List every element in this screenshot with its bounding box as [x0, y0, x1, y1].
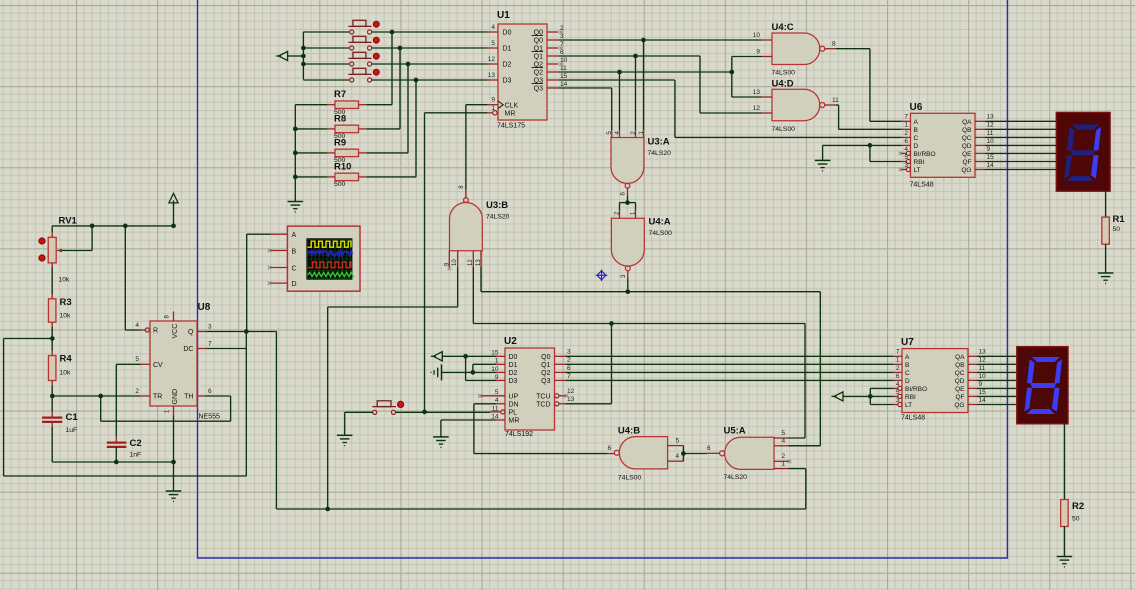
wire Q2bar drop to U3:A — [619, 72, 621, 130]
svg-text:D2: D2 — [503, 62, 512, 69]
svg-text:9: 9 — [491, 97, 495, 104]
wire U6 QD to display — [985, 144, 1056, 146]
wire U6 QA to display — [985, 120, 1056, 122]
U6 pin QA (13) — [975, 120, 985, 122]
ground (U2 data) — [441, 364, 443, 380]
svg-text:QG: QG — [961, 167, 971, 174]
U7 pin QG (14) — [968, 404, 977, 406]
svg-text:R7: R7 — [334, 89, 346, 100]
svg-text:UP: UP — [509, 394, 519, 401]
svg-text:A: A — [292, 232, 297, 239]
wire switch bus vertical — [302, 32, 304, 80]
svg-text:6: 6 — [896, 373, 900, 380]
svg-text:3: 3 — [560, 33, 564, 40]
node junction TR-C2branch — [98, 394, 103, 399]
U6 pin QG (14) — [975, 169, 985, 171]
svg-text:B: B — [905, 362, 909, 369]
svg-text:7: 7 — [904, 114, 908, 121]
wire RV1 to R3 — [51, 263, 53, 267]
wire Q1bar drop to U3:A — [635, 56, 637, 130]
node junction PL-MR — [422, 410, 427, 415]
node junction row1 — [390, 30, 395, 35]
svg-text:R10: R10 — [334, 161, 351, 172]
U8 pin DC (7) — [197, 348, 206, 350]
U4:D input pin 12 — [762, 112, 772, 114]
wire R2 to ground — [1063, 527, 1065, 557]
svg-text:6: 6 — [567, 365, 571, 372]
oscilloscope graph instrument — [287, 226, 360, 291]
chip U6 74LS48 — [911, 113, 976, 177]
U5:A input pin 5 — [774, 437, 789, 439]
wire U3:A out to U4:A inputs — [627, 196, 629, 203]
U4:C input pin 9 — [762, 56, 772, 58]
U1 pin Q2 (10) — [547, 63, 558, 65]
node junction Q-osc — [244, 329, 249, 334]
U1 pin Q2bar (11) — [547, 71, 558, 73]
U7 pin QE (9) — [968, 387, 977, 389]
wire switch SW2 to U1 D1 — [372, 47, 488, 49]
wire DN net from U4:B — [474, 403, 496, 405]
svg-text:8: 8 — [832, 41, 836, 48]
node junction clock bus — [325, 507, 330, 512]
node junction bus-row2 — [301, 46, 306, 51]
svg-text:3: 3 — [904, 162, 908, 169]
U5:A pin2 unconnected mark — [788, 460, 792, 464]
ground (U2 MR) — [433, 436, 449, 438]
svg-text:GND: GND — [172, 389, 179, 405]
wire Q3 net (pin15) to U6 C — [558, 79, 675, 81]
potentiometer RV1 — [51, 232, 53, 237]
svg-text:1: 1 — [491, 105, 495, 112]
svg-text:11: 11 — [979, 365, 986, 372]
svg-text:TR: TR — [153, 394, 162, 401]
RV1 adjust buttons — [39, 238, 45, 244]
U4:B input pins 5,4 — [668, 445, 684, 447]
U7 pin B (1) — [894, 363, 903, 365]
wire rail to RV1 — [51, 226, 53, 232]
switch SW5 state indicator — [398, 401, 404, 407]
switch SW3 state indicator — [373, 53, 379, 59]
svg-text:RBI: RBI — [914, 159, 925, 166]
U2 pin Q3 (7) — [555, 379, 566, 381]
wire Q to clock bus — [275, 332, 277, 510]
wire U2 Q1 to U7 — [566, 363, 894, 365]
svg-text:10k: 10k — [60, 370, 72, 377]
U7 pin QC (11) — [968, 371, 977, 373]
U1 pin Q0bar (3) — [547, 39, 558, 41]
node junction row3 — [406, 62, 411, 67]
svg-text:Q3: Q3 — [541, 378, 550, 385]
svg-text:5: 5 — [904, 154, 908, 161]
wire TR to TH dogleg — [100, 396, 102, 421]
wire U5:A pin4 riser — [789, 445, 821, 447]
svg-text:D: D — [905, 378, 910, 385]
U1 pin D1 (5) — [488, 47, 498, 49]
svg-text:D0: D0 — [509, 354, 518, 361]
resistor R8 — [366, 128, 400, 130]
U6 pin QB (12) — [975, 128, 985, 130]
U6 pin A (7) — [902, 120, 911, 122]
7-segment display DS2 — [1017, 347, 1068, 424]
U3:B pin9 unconnected mark — [448, 267, 452, 271]
svg-text:4: 4 — [676, 453, 680, 460]
svg-text:R: R — [153, 328, 158, 335]
svg-text:A: A — [905, 354, 910, 361]
U3:B output bubble (pin 8) — [464, 198, 469, 203]
U1 pin Q3bar (14) — [547, 87, 558, 89]
U8 pin Q (3) — [197, 331, 206, 333]
svg-text:4: 4 — [782, 438, 786, 445]
svg-text:QG: QG — [954, 402, 964, 409]
resistor R10 — [366, 176, 416, 178]
svg-text:15: 15 — [560, 73, 568, 80]
wire SW5 to PL net — [396, 411, 490, 413]
svg-text:TH: TH — [184, 394, 193, 401]
svg-text:74LS175: 74LS175 — [497, 123, 525, 130]
svg-text:2: 2 — [135, 388, 139, 395]
node junction U7 RBI — [868, 394, 873, 399]
svg-text:U4:D: U4:D — [772, 78, 794, 89]
svg-text:DN: DN — [509, 402, 519, 409]
wire Q0bar net (pin3) — [558, 39, 762, 41]
wire R4 to TR row — [51, 381, 53, 386]
svg-text:10: 10 — [753, 32, 761, 39]
svg-text:3: 3 — [896, 397, 900, 404]
svg-text:QD: QD — [962, 143, 972, 150]
U8 pin TR (2) — [141, 395, 150, 397]
svg-text:7: 7 — [896, 349, 900, 356]
svg-text:Q0: Q0 — [534, 38, 543, 45]
wire Q0bar drop to U3:A — [643, 40, 645, 130]
resistor R4 — [51, 339, 53, 351]
svg-text:1: 1 — [904, 122, 908, 129]
svg-text:74LS00: 74LS00 — [618, 475, 642, 482]
gate U4:D 74LS00 — [772, 89, 820, 121]
U1 pin Q3 (15) — [547, 79, 558, 81]
U2 UP unconnected mark — [478, 394, 482, 398]
wire to switch SW2 — [303, 47, 349, 49]
svg-text:6: 6 — [560, 49, 564, 56]
svg-text:10: 10 — [979, 373, 987, 380]
svg-text:1: 1 — [782, 460, 786, 467]
U2 TCU unconnected mark — [565, 394, 569, 398]
svg-text:74LS48: 74LS48 — [910, 182, 934, 189]
svg-text:QA: QA — [962, 119, 972, 126]
U7 pin QF (15) — [968, 395, 977, 397]
wire Q2bar net (pin11) — [558, 71, 731, 73]
oscilloscope pin B — [271, 250, 288, 252]
gate U4:A 74LS00 — [611, 218, 644, 266]
svg-text:QC: QC — [962, 135, 972, 142]
svg-text:BI/RBO: BI/RBO — [914, 151, 936, 158]
svg-text:5: 5 — [676, 437, 680, 444]
wire U5:A pin1 to clock bus — [789, 468, 806, 470]
gate U4:C 74LS00 — [772, 33, 820, 65]
svg-text:LT: LT — [914, 167, 921, 174]
U7 pin A (7) — [894, 355, 903, 357]
switch SW1 — [348, 20, 371, 34]
svg-text:9: 9 — [987, 146, 991, 153]
U6 pin D (6) — [902, 144, 911, 146]
svg-text:QB: QB — [955, 362, 964, 369]
U5:A output bubble pin 6 — [720, 451, 725, 456]
ground (555) — [166, 490, 182, 492]
ground (SW5) — [337, 434, 353, 436]
svg-text:10: 10 — [987, 138, 995, 145]
svg-text:Q1: Q1 — [541, 362, 550, 369]
capacitor C2 — [115, 436, 117, 442]
oscilloscope unconnected marks — [268, 249, 272, 253]
wire U3:B pin13 net — [480, 267, 482, 292]
svg-text:Q1: Q1 — [534, 54, 543, 61]
U4:D output bubble pin 11 — [820, 103, 825, 108]
ground (R1) — [1098, 272, 1114, 274]
svg-text:74LS20: 74LS20 — [648, 150, 672, 157]
U7 pin C (2) — [894, 371, 903, 373]
resistor R9 — [366, 152, 408, 154]
U1 unconnected stub marks — [559, 30, 563, 34]
wire U3:B pin12 net — [472, 267, 474, 324]
svg-text:C2: C2 — [130, 438, 142, 449]
svg-text:B: B — [914, 127, 918, 134]
svg-text:13: 13 — [476, 259, 482, 266]
svg-text:6: 6 — [904, 138, 908, 145]
U7 pin QB (12) — [968, 363, 977, 365]
wire Q2bar to U4:D pin13 — [731, 72, 733, 97]
svg-text:11: 11 — [560, 65, 567, 72]
svg-text:1: 1 — [896, 357, 900, 364]
wire to switch SW3 — [303, 63, 349, 65]
svg-text:CLK: CLK — [505, 102, 519, 109]
wire C1 to ground row — [51, 422, 53, 427]
wire U2 Q0 to U7 — [566, 355, 894, 357]
svg-text:TCU: TCU — [536, 394, 550, 401]
svg-text:R2: R2 — [1072, 501, 1084, 512]
U2 pin D3 (9) — [496, 379, 505, 381]
svg-text:5: 5 — [135, 356, 139, 363]
wire U7 QE to display — [977, 387, 1017, 389]
svg-text:C: C — [914, 135, 919, 142]
svg-text:11: 11 — [492, 405, 499, 412]
U6 pin QC (11) — [975, 136, 985, 138]
wire U7 BI/RBO-LT tie — [870, 387, 893, 389]
svg-text:U1: U1 — [497, 10, 510, 21]
wire U4:A out down — [627, 278, 629, 292]
wire VCC rail — [52, 225, 173, 227]
node junction Q2bar-B — [729, 70, 734, 75]
U2 pin D2 (10) — [496, 371, 505, 373]
node junction R8 — [293, 127, 298, 132]
switch SW3 — [348, 52, 371, 66]
gate U4:B 74LS00 — [619, 437, 667, 469]
U1 pin Q1 (7) — [547, 47, 558, 49]
svg-text:D3: D3 — [503, 78, 512, 85]
switch SW5 (load) — [373, 410, 377, 414]
svg-text:13: 13 — [488, 72, 496, 79]
svg-text:QF: QF — [962, 159, 971, 166]
node junction row2 — [398, 46, 403, 51]
svg-text:12: 12 — [468, 259, 474, 266]
svg-text:C: C — [292, 265, 297, 272]
svg-text:RV1: RV1 — [59, 216, 78, 227]
svg-text:500: 500 — [334, 181, 346, 188]
svg-text:74LS192: 74LS192 — [505, 431, 533, 438]
wire R7 to gnd bus — [295, 104, 327, 106]
svg-text:74LS00: 74LS00 — [772, 126, 796, 133]
svg-text:4: 4 — [491, 24, 495, 31]
node junction net12-TCD — [609, 321, 614, 326]
node junction C2-ground — [114, 460, 119, 465]
U2 pin Q0 (3) — [555, 355, 566, 357]
U1 pin CLK (9) — [488, 104, 498, 106]
wire U6 D ground net — [823, 144, 902, 146]
svg-text:QE: QE — [962, 151, 972, 158]
wire U4:B inputs tie — [682, 446, 684, 462]
resistor R3 — [48, 299, 56, 322]
svg-text:12: 12 — [987, 122, 995, 129]
svg-text:5: 5 — [491, 40, 495, 47]
node junction D0 — [463, 354, 468, 359]
U2 pin UP (5) — [481, 395, 505, 397]
svg-text:D0: D0 — [503, 30, 512, 37]
svg-text:QF: QF — [955, 394, 964, 401]
U2 pin TCU (12) — [555, 394, 559, 398]
wire switch SW3 to U1 D2 — [372, 63, 488, 65]
svg-text:10k: 10k — [60, 313, 72, 320]
wire — [288, 55, 304, 57]
node junction bus-arrow — [301, 54, 306, 59]
svg-text:C: C — [905, 370, 910, 377]
oscilloscope pin D — [271, 282, 288, 284]
U7 pin BI/RBO (4) — [894, 387, 898, 389]
wire R9 to gnd bus — [295, 152, 327, 154]
svg-text:U4:C: U4:C — [772, 22, 794, 33]
U3:B input pins 9,10,12,13 — [448, 251, 450, 267]
svg-text:RBI: RBI — [905, 394, 916, 401]
U7 pin QD (10) — [968, 379, 977, 381]
U5:A input pin 4 — [774, 445, 789, 447]
wire U6 RBI ground link — [869, 145, 871, 161]
terminal input arrow (switch bus) — [279, 51, 288, 60]
wire DC to feedback — [206, 348, 246, 350]
wire U6 QE to display — [985, 152, 1056, 154]
U3:A output pin 6 — [627, 188, 629, 196]
svg-text:4: 4 — [904, 146, 908, 153]
svg-text:74LS48: 74LS48 — [901, 415, 925, 422]
U1 pin Q1bar (6) — [547, 55, 558, 57]
wire U7 QD to display — [977, 379, 1017, 381]
svg-text:NE555: NE555 — [199, 414, 221, 421]
U4:A output pin 3 — [627, 271, 629, 278]
svg-text:10k: 10k — [59, 277, 71, 284]
svg-text:CV: CV — [153, 362, 163, 369]
wire R1 to ground — [1105, 244, 1107, 273]
svg-text:10: 10 — [560, 57, 568, 64]
svg-text:U4:B: U4:B — [618, 426, 640, 437]
svg-text:50: 50 — [1072, 516, 1080, 523]
wire U3:B out to U1 CLK — [465, 105, 467, 190]
U6 pin BI/RBO (4) — [902, 152, 907, 154]
svg-text:Q2: Q2 — [534, 70, 543, 77]
U7 pin D (6) — [894, 379, 903, 381]
svg-text:D1: D1 — [509, 362, 518, 369]
svg-text:U5:A: U5:A — [724, 426, 746, 437]
svg-text:14: 14 — [560, 81, 568, 88]
svg-text:9: 9 — [756, 48, 760, 55]
gate U5:A 74LS20 — [725, 437, 774, 469]
U2 pin DN (4) — [496, 403, 505, 405]
wire U5:A out to U4:B — [683, 453, 706, 455]
wire U2 Q3 to U7 — [566, 379, 894, 381]
svg-text:12: 12 — [979, 357, 987, 364]
svg-text:QC: QC — [955, 370, 965, 377]
U6 pin QD (10) — [975, 144, 985, 146]
svg-text:Q0: Q0 — [541, 354, 550, 361]
ground (U6) — [815, 159, 831, 161]
wire TCD riser — [611, 324, 613, 404]
svg-text:10: 10 — [452, 259, 458, 266]
switch SW1 state indicator — [373, 21, 379, 27]
wire U7 QB to display — [977, 363, 1017, 365]
svg-text:U3:A: U3:A — [648, 137, 670, 148]
U2 pin PL (11) — [490, 411, 501, 413]
svg-text:2: 2 — [896, 365, 900, 372]
svg-text:6: 6 — [707, 445, 711, 452]
svg-text:U7: U7 — [901, 337, 914, 348]
U8 pin CV (5) — [116, 363, 140, 365]
node junction rail-wiper — [90, 224, 95, 229]
U8 pin TH (6) — [197, 395, 204, 397]
svg-text:R3: R3 — [60, 297, 72, 308]
oscilloscope waveform channel B (blue) — [308, 251, 353, 256]
wire U4:C out to U6 A — [836, 48, 870, 50]
U8 pin R (4) — [124, 226, 126, 330]
U3:A input pins 5,4,2,1 — [611, 130, 613, 137]
U6 pin B (1) — [902, 128, 911, 130]
U2 pin Q2 (6) — [555, 371, 566, 373]
svg-text:QB: QB — [962, 127, 971, 134]
wire switch SW1 to U1 D0 — [372, 31, 488, 33]
chip U1 74LS175 — [498, 24, 547, 120]
svg-text:9: 9 — [979, 381, 983, 388]
wire U7 QF to display — [977, 395, 1017, 397]
node junction U4:B in — [681, 451, 686, 456]
wire D2 row — [442, 371, 497, 373]
wire TH to dogleg — [204, 395, 230, 397]
svg-text:6: 6 — [608, 445, 612, 452]
svg-text:5: 5 — [782, 430, 786, 437]
svg-text:D1: D1 — [503, 46, 512, 53]
U2 pin D0 (15) — [496, 355, 505, 357]
svg-text:QD: QD — [955, 378, 965, 385]
svg-text:R1: R1 — [1113, 214, 1126, 225]
svg-text:11: 11 — [832, 97, 839, 104]
svg-text:A: A — [914, 119, 919, 126]
svg-text:B: B — [292, 248, 297, 255]
wire U1 MR net vertical — [425, 112, 488, 114]
svg-text:DC: DC — [183, 346, 193, 353]
origin marker — [596, 270, 608, 282]
svg-text:74LS20: 74LS20 — [486, 214, 510, 221]
switch SW4 — [348, 68, 371, 82]
U7 pin LT (3) — [894, 404, 898, 406]
svg-text:2: 2 — [567, 357, 571, 364]
wire D0-D3 link — [465, 356, 467, 380]
U2 pin D1 (1) — [496, 363, 505, 365]
resistor R7 — [366, 104, 392, 106]
wire R10 to gnd bus — [295, 176, 327, 178]
wire U6 QF to display — [985, 161, 1056, 163]
